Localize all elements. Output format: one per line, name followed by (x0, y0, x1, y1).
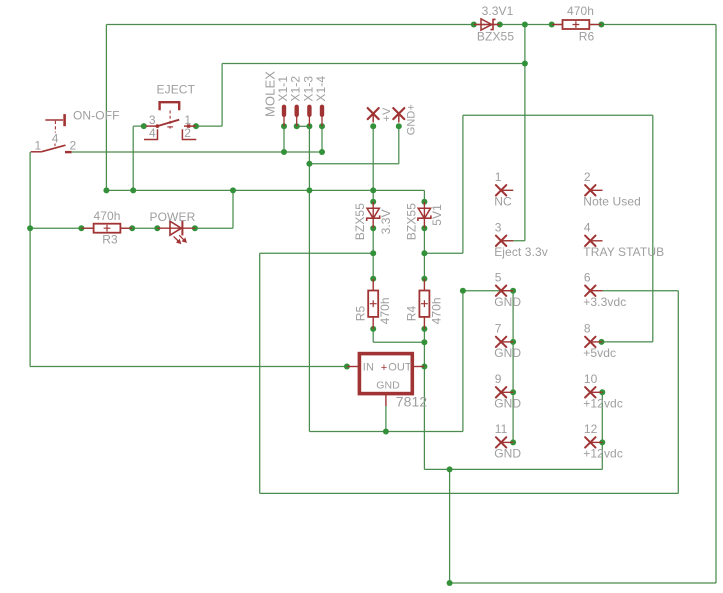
node zener D2 bottom (421, 225, 427, 231)
wire zener D2 bottom to junction (423, 228, 425, 278)
resistor R6 (552, 24, 563, 26)
node X1-4 / switch row (319, 149, 325, 155)
node pin9 GND (510, 389, 516, 395)
wire 3.3V riser to pin6 (677, 291, 679, 494)
node +V supply (370, 123, 376, 129)
svg-text:NC: NC (494, 195, 512, 209)
svg-text:R5: R5 (353, 306, 367, 322)
wire GND pins chain (512, 291, 514, 443)
svg-text:GND: GND (494, 397, 521, 411)
wire ON-OFF pin1 drop (29, 152, 31, 367)
junction +12V run / bottom drop (447, 466, 453, 472)
wire LED riser (232, 190, 234, 228)
wire 12V drop x=450 (449, 469, 451, 583)
svg-text:R6: R6 (579, 30, 595, 44)
node LED cathode (192, 225, 198, 231)
svg-text:R4: R4 (405, 306, 419, 322)
node pin5 GND (510, 288, 516, 294)
svg-text:EJECT: EJECT (157, 83, 196, 97)
svg-text:TRAY STATUB: TRAY STATUB (583, 245, 664, 259)
svg-text:470h: 470h (378, 297, 392, 324)
junction R5 link / R4 line (421, 339, 427, 345)
svg-text:R3: R3 (102, 233, 118, 247)
pin 5 GND (501, 290, 513, 292)
supply +V symbol (368, 108, 379, 119)
wire GND symbol drop (398, 126, 400, 164)
svg-text:470h: 470h (93, 209, 120, 223)
node R5 top pin (370, 276, 376, 282)
node R3 right pin (129, 225, 135, 231)
svg-text:3.3V: 3.3V (379, 209, 393, 234)
node diode D3 anode (471, 22, 477, 28)
junction eject drop / +V rail (130, 187, 136, 193)
wire 5V node right run (424, 252, 463, 254)
zener diode D2 BZX55 5V1 (423, 202, 425, 229)
wire zener D1 bottom to junction (372, 228, 374, 278)
switch S2 EJECT actuator (160, 102, 180, 128)
connector X1 MOLEX pins (282, 107, 286, 115)
node R4 bottom pin (421, 326, 427, 332)
junction riser / eject rail (522, 61, 528, 67)
wire GND bottom run (309, 431, 463, 433)
switch S1 ON-OFF contacts (31, 145, 72, 152)
node 7812 IN pin (344, 364, 350, 370)
svg-text:8: 8 (584, 322, 591, 336)
wire EJECT pin3 stub (133, 125, 146, 127)
svg-text:11: 11 (495, 422, 508, 436)
pin 11 GND (501, 441, 513, 443)
junction bottom rail corner (447, 580, 453, 586)
wire R3 LED row right (195, 227, 233, 229)
svg-text:Eject 3.3v: Eject 3.3v (494, 245, 548, 259)
node 7812 OUT pin (421, 364, 427, 370)
wire GND link to X1-3 (309, 163, 398, 165)
node R4 top pin (421, 276, 427, 282)
wire GND riser to pin5 (462, 291, 464, 432)
wire pin6 +3.3vdc stub (602, 290, 678, 292)
node X1-4 (319, 123, 325, 129)
node EJECT pin1 (193, 123, 199, 129)
pin 6 +3.3vdc (590, 290, 602, 292)
wire pin8 +5vdc stub (602, 341, 653, 343)
supply GND symbol (393, 108, 404, 119)
wire top rail left drop to +V node (105, 25, 107, 191)
svg-text:GND: GND (494, 295, 521, 309)
U1 OUT pin (412, 366, 424, 368)
pin 9 GND (501, 391, 513, 393)
svg-text:3: 3 (495, 221, 502, 235)
junction X1-1 / switch row (281, 149, 287, 155)
wire bottom rail (450, 582, 716, 584)
wire +V horizontal rail (106, 189, 424, 191)
wire +V top rail horizontal (106, 24, 716, 26)
node pin12 +12vdc (599, 439, 605, 445)
node R3 left pin (78, 225, 84, 231)
wire bottom 3.3V run (260, 492, 679, 494)
wire pin3 Eject stub (503, 240, 525, 242)
pin 2 Note Used (590, 189, 602, 191)
wire 7812 GND drop (385, 406, 387, 432)
svg-text:1: 1 (35, 139, 42, 153)
wire EJECT pin1 stub (196, 125, 222, 127)
svg-text:470h: 470h (567, 4, 594, 18)
pin 3 Eject 3.3v (501, 240, 513, 242)
wire EJECT pin3 drop (132, 126, 134, 190)
svg-text:X1-4: X1-4 (314, 76, 328, 102)
wire 5V riser x=463 (462, 115, 464, 253)
U1 IN pin (347, 366, 360, 368)
pin 4 TRAY STATUB (590, 240, 602, 242)
svg-text:BZX55: BZX55 (477, 30, 514, 44)
svg-text:7812: 7812 (396, 393, 428, 409)
svg-text:2: 2 (184, 126, 191, 140)
svg-text:+3.3vdc: +3.3vdc (583, 295, 626, 309)
node diode D3 cathode (497, 22, 503, 28)
node X1-3 (306, 123, 312, 129)
svg-text:5V1: 5V1 (430, 204, 444, 226)
pin 7 GND (501, 341, 513, 343)
svg-text:2: 2 (584, 170, 591, 184)
junction LED riser / +V rail (230, 187, 236, 193)
wire +V symbol drop to zener D1 (372, 126, 374, 201)
junction 7812 GND / GND run (383, 429, 389, 435)
node pin7 GND (510, 339, 516, 345)
pin 10 +12vdc (590, 391, 602, 393)
LED1 POWER (157, 227, 195, 229)
node zener D2 top (421, 199, 427, 205)
svg-text:OUT: OUT (388, 362, 412, 374)
pin 12 +12vdc (590, 441, 602, 443)
wire R5 bottom link (372, 329, 374, 342)
wire MOLEX X1-1 drop (283, 126, 285, 152)
zener diode D3 3.3V1 BZX55 horizontal (474, 24, 500, 26)
pin 1 NC (501, 189, 513, 191)
node X1-2 (294, 123, 300, 129)
svg-text:4: 4 (584, 221, 591, 235)
svg-text:GND: GND (376, 380, 400, 392)
wire pin5 GND row (463, 290, 513, 292)
wire MOLEX X1-4 drop (321, 126, 323, 152)
node R6 right (598, 22, 604, 28)
node pin10 +12vdc (599, 389, 605, 395)
wire R4 output vertical to +OUT and down (423, 329, 425, 470)
junction pin5 corner (460, 288, 466, 294)
svg-text:+12vdc: +12vdc (583, 447, 623, 461)
node X1-1 (281, 123, 287, 129)
wire R3 LED row left (30, 227, 157, 229)
wire switch row (72, 151, 322, 153)
node +V rail left corner (103, 187, 109, 193)
node pin11 GND (510, 439, 516, 445)
wire pin10-12 drop (601, 392, 603, 469)
svg-text:Note Used: Note Used (583, 195, 641, 209)
wire MOLEX X1-2 to X1-3 link (297, 125, 310, 127)
node LED anode (154, 225, 160, 231)
junction +V drop / +V rail (370, 187, 376, 193)
svg-text:1: 1 (495, 170, 502, 184)
zener diode D1 BZX55 3.3V (372, 202, 374, 229)
pin 8 +5vdc (590, 341, 602, 343)
switch S2 EJECT contacts (144, 120, 196, 140)
wire to 7812 IN (30, 366, 347, 368)
svg-text:GND: GND (494, 447, 521, 461)
node R3 row corner (27, 225, 33, 231)
svg-text:470h: 470h (429, 297, 443, 324)
svg-text:IN: IN (363, 362, 374, 374)
resistor R4 (423, 279, 425, 291)
svg-text:7: 7 (495, 322, 502, 336)
node pin8 +5vdc (599, 339, 605, 345)
svg-text:POWER: POWER (150, 210, 196, 224)
svg-text:6: 6 (584, 270, 591, 284)
junction GND link / X1-3 drop (306, 161, 312, 167)
wire 5V top run (463, 114, 653, 116)
svg-text:BZX55: BZX55 (353, 203, 367, 240)
wire riser vertical x=222 (221, 64, 223, 127)
wire zener D2 drop from +V rail (423, 190, 425, 201)
wire MOLEX X1-3 long drop (308, 126, 310, 431)
junction top rail / riser (522, 22, 528, 28)
svg-text:9: 9 (495, 372, 502, 386)
node R6 left (549, 22, 555, 28)
wire 3.3V drop x=260 (259, 253, 261, 493)
svg-text:+5vdc: +5vdc (583, 346, 616, 360)
junction X1-3 drop / +V rail (306, 187, 312, 193)
regulator U1 7812 box (359, 354, 412, 394)
svg-text:+V: +V (381, 107, 393, 122)
node zener D1 bottom (370, 225, 376, 231)
svg-text:GND: GND (494, 346, 521, 360)
svg-text:BZX55: BZX55 (404, 203, 418, 240)
resistor R3 (81, 227, 93, 229)
svg-text:GND+: GND+ (405, 104, 417, 135)
svg-text:+12vdc: +12vdc (583, 397, 623, 411)
wire right rail from R6 (715, 25, 717, 584)
junction 3.3V node (370, 250, 376, 256)
wire pin3 riser x=525 (524, 25, 526, 241)
node EJECT pin3 (141, 123, 147, 129)
junction 5V node (421, 250, 427, 256)
svg-text:ON-OFF: ON-OFF (73, 109, 120, 123)
svg-text:5: 5 (495, 270, 502, 284)
wire 5V drop to pin8 (652, 115, 654, 342)
svg-text:4: 4 (52, 131, 59, 145)
U1 GND pin (385, 394, 387, 406)
svg-text:3.3V1: 3.3V1 (482, 4, 514, 18)
svg-text:4: 4 (149, 126, 156, 140)
svg-text:10: 10 (584, 372, 598, 386)
node GND supply (396, 123, 402, 129)
wire EJECT pin1 to top rail riser (222, 63, 525, 65)
svg-text:2: 2 (70, 139, 77, 153)
svg-text:12: 12 (584, 422, 598, 436)
node zener D1 top (370, 199, 376, 205)
resistor R5 (372, 279, 374, 291)
wire +12V bottom run (424, 468, 602, 470)
wire 3.3V node left run (260, 252, 374, 254)
node R5 bottom pin (370, 326, 376, 332)
svg-text:+: + (381, 362, 388, 374)
switch S1 ON-OFF actuator (45, 114, 64, 147)
